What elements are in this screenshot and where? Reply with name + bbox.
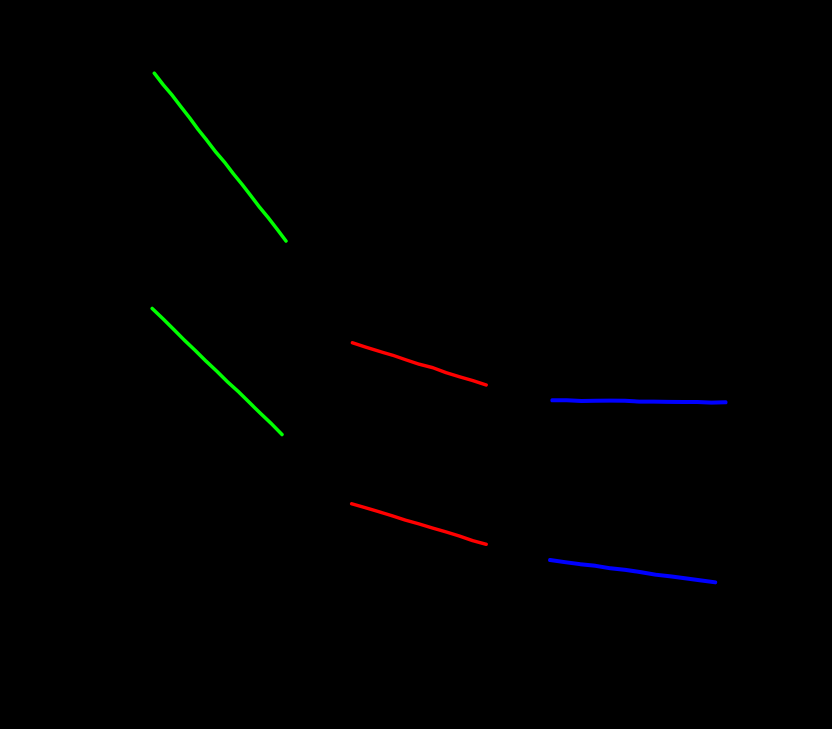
curve2 green segment <box>152 309 282 435</box>
curve1 red segment <box>352 343 486 385</box>
curve2 red segment <box>352 504 487 545</box>
curve2 blue segment <box>550 560 715 582</box>
curve1 blue segment <box>552 400 725 402</box>
curve1 green segment <box>154 73 286 241</box>
